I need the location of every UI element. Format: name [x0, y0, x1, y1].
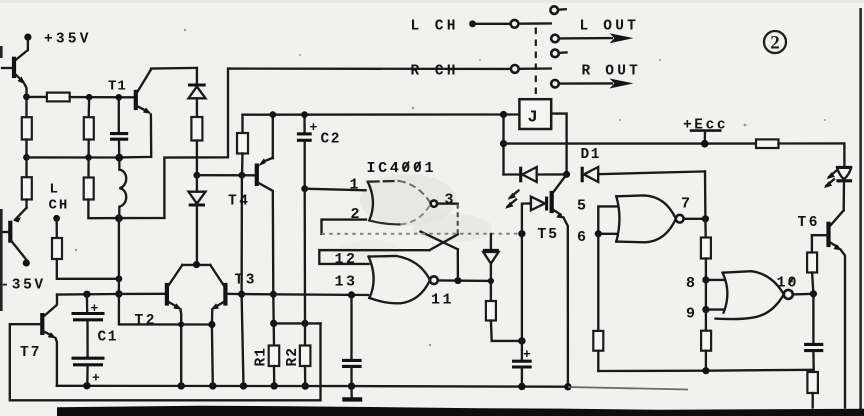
node pin11 cross riser — [454, 277, 461, 284]
node x=241.6 y=175 — [239, 172, 246, 179]
svg-text:R1: R1 — [254, 347, 270, 366]
node R1 top — [270, 320, 277, 327]
wire D1 net corner down to gate out — [704, 171, 707, 218]
svg-text:12: 12 — [335, 251, 358, 268]
node pin 7 — [702, 215, 709, 222]
node gnd T3emitter — [209, 382, 216, 389]
wire top rail y=97 — [27, 96, 47, 98]
wire mid rail y=157 — [27, 156, 120, 158]
wire feedback dotted line to T5 — [322, 233, 522, 235]
node pin 8 — [702, 276, 709, 283]
svg-text:T7: T7 — [20, 345, 41, 361]
scan smudge background artifacts — [0, 0, 864, 260]
arrow R OUT — [559, 64, 641, 89]
switch contact mid NC — [551, 50, 566, 58]
svg-text:+: + — [92, 371, 100, 386]
switch contact top NC — [550, 6, 565, 14]
gate U1A (pins 1,2 -> 3) faded — [368, 181, 437, 225]
wire pin 2 hook — [322, 220, 367, 234]
node gnd x=522 — [518, 383, 525, 390]
node pin13 cap tap — [348, 291, 355, 298]
resistor R2 — [285, 323, 310, 386]
gate U1B (pins 12,13 -> 11) — [369, 256, 438, 303]
svg-text:T2: T2 — [135, 313, 157, 329]
diode lower (x=197 chain, pointing down) — [189, 175, 206, 264]
svg-text:T1: T1 — [108, 79, 127, 95]
node gnd x=568 — [564, 383, 571, 390]
wire x=119 vertical to base rail — [118, 218, 120, 294]
node A (top rail left) — [23, 93, 30, 100]
svg-text:R2: R2 — [285, 347, 301, 366]
svg-text:2: 2 — [770, 33, 780, 54]
wire cross X (pin3 to pin12 / pin11 to feedback) — [421, 232, 458, 251]
left page-edge mark upper — [0, 46, 3, 58]
capacitor x=522 polarized — [512, 341, 532, 387]
wire R-CH input feed (corner chain) — [164, 69, 510, 218]
switch contact L pole — [511, 20, 519, 28]
resistor x=598 — [593, 234, 603, 371]
wire pin 11 output — [438, 279, 491, 282]
wire pin 1 — [305, 189, 366, 191]
wire C2 line down to R2 — [304, 189, 307, 324]
gate U1D (pins 8,9 -> 10) — [716, 271, 793, 319]
resistor T6 base — [807, 235, 817, 294]
label L CH input — [49, 182, 70, 214]
wire resistor to node 175 — [196, 141, 198, 176]
svg-text:T5: T5 — [538, 227, 559, 243]
node x=88.5 y=157 — [85, 154, 92, 161]
resistor R1 — [254, 323, 280, 386]
node diode mid bottom — [488, 278, 494, 284]
node R2 top — [301, 320, 308, 327]
svg-text:R CH: R CH — [411, 64, 459, 80]
node gnd T2emitter — [178, 382, 185, 389]
resistor chain x=26.5 upper — [22, 99, 32, 157]
resistor chain x=88.5 upper — [84, 99, 94, 158]
node gnd cap352 — [348, 382, 355, 389]
label +Ecc — [683, 118, 728, 142]
wire x=241.6 vertical (T3 base / flipflop) — [242, 175, 244, 386]
resistor horizontal Ecc-LED — [756, 139, 779, 148]
ground stub below rail x=352 — [342, 386, 362, 399]
node pin 9 — [702, 306, 709, 313]
svg-text:C2: C2 — [321, 132, 341, 148]
node x=241.6 y=294 — [238, 291, 245, 298]
capacitor C2 — [297, 115, 341, 189]
svg-text:D1: D1 — [581, 147, 602, 163]
node rail x=119 — [116, 94, 123, 101]
wire T1 collector top run — [151, 67, 197, 70]
left page-edge line — [0, 209, 3, 311]
resistor x=706 lower — [701, 310, 711, 371]
transistor T4 — [228, 115, 273, 295]
transistor T5 with photodiode — [505, 174, 568, 386]
diode flyback (cathode left) — [504, 167, 567, 183]
svg-text:L OUT: L OUT — [580, 19, 640, 35]
switch contact L OUT — [551, 35, 559, 43]
transistor T2 — [135, 265, 183, 386]
svg-text:6: 6 — [577, 229, 586, 246]
inductor L (two right-bulging arcs) — [119, 158, 126, 219]
svg-text:-35V: -35V — [1, 278, 46, 294]
mark circled 2 — [764, 31, 786, 54]
diode mid (x=491, cathode up) — [483, 234, 499, 281]
svg-text:7: 7 — [681, 196, 690, 213]
node gnd x=243 — [240, 382, 247, 389]
node L CH feed dot — [469, 20, 476, 27]
wire R1/R2 top tie — [274, 322, 321, 324]
wire pin 9 stub — [706, 308, 725, 310]
wire T2 base rail — [57, 293, 166, 296]
wire pin 3 output corner — [437, 202, 458, 204]
node gnd R2 — [302, 382, 309, 389]
wire pin 8 stub — [706, 279, 724, 281]
svg-text:T6: T6 — [798, 215, 820, 231]
svg-text:IC4001: IC4001 — [367, 160, 437, 177]
node x=197 y=175 — [194, 172, 201, 179]
wire T4 collector to R1 top — [272, 294, 275, 323]
node x=273 y=294 — [270, 291, 277, 298]
node x=522 y=341 — [518, 337, 525, 344]
resistor chain x=88.5 lower — [84, 157, 165, 218]
resistor x=242.5 (from +rail) — [237, 115, 248, 176]
resistor horizontal top-left — [47, 93, 70, 102]
right page-edge line — [859, 8, 862, 416]
svg-text:13: 13 — [335, 274, 358, 291]
svg-text:L CH: L CH — [411, 19, 459, 35]
svg-text:L: L — [50, 182, 60, 198]
node x=26.5 y=157 — [23, 154, 30, 161]
node diode row center — [563, 171, 570, 178]
node x=119 y=279 — [116, 275, 123, 282]
node -35V terminal — [1, 259, 46, 293]
wire riser x=458 — [457, 249, 459, 280]
node collector tie center — [193, 261, 200, 268]
resistor x=706 upper — [701, 219, 711, 280]
node T4 emitter at +rail — [269, 111, 276, 118]
node gnd R1 — [271, 382, 278, 389]
svg-text:CH: CH — [49, 198, 70, 214]
wire pin 7 output — [684, 218, 706, 220]
wire relay actuator dashed — [535, 28, 537, 98]
wire T2/T3 collector tie — [182, 264, 210, 266]
wire rail resistor to T1 base — [70, 96, 136, 99]
capacitor x=352 — [342, 295, 362, 386]
resistor x=813 bottom — [807, 372, 818, 408]
transistor T6 — [798, 210, 846, 407]
node pin 10 out — [810, 290, 817, 297]
wire pins 5,6 tie — [598, 206, 616, 233]
svg-text:+35V: +35V — [44, 32, 92, 48]
wire T1 emitter riser — [119, 115, 151, 158]
node +Ecc tap — [701, 140, 709, 148]
node L CH terminal — [53, 215, 60, 222]
wire +relay rail y=114.6 — [243, 113, 520, 116]
svg-text:R OUT: R OUT — [582, 64, 642, 80]
svg-text:+: + — [91, 301, 99, 316]
diode upper (x=197 chain, pointing up) — [188, 68, 206, 117]
node T2 emitter bootstrap crossing — [178, 321, 184, 327]
scan speckles — [75, 29, 826, 346]
capacitor C1 (two polarized sections) — [72, 294, 118, 385]
wire ground rail faded continuation — [568, 387, 688, 390]
label pin 10 — [777, 275, 799, 292]
wire +35V dot to Q A collector — [15, 40, 28, 61]
svg-text:8: 8 — [686, 275, 695, 292]
LED (photo-emitter, cathode down) — [824, 167, 852, 210]
label IC4001 — [367, 160, 437, 177]
svg-text:J: J — [528, 109, 538, 128]
switch contact R OUT — [551, 80, 559, 88]
wire pin3 vertical (faded dashes) — [457, 204, 459, 235]
node pin 6 — [595, 230, 602, 237]
node gnd2 x=706 — [702, 367, 709, 374]
svg-text:T3: T3 — [235, 273, 257, 289]
svg-text:T4: T4 — [228, 194, 250, 210]
svg-text:11: 11 — [431, 292, 454, 309]
wire right ground rail y=371 — [598, 370, 813, 371]
wire pin 13 rail — [242, 293, 368, 296]
svg-text:9: 9 — [686, 306, 695, 323]
node pin1 tap — [301, 185, 308, 192]
transistor QB (PNP to -35V) — [2, 208, 27, 260]
resistor x=197 — [191, 117, 202, 141]
transistor QA (upper-left NPN) — [2, 57, 27, 93]
resistor L CH input — [52, 220, 119, 279]
resistor chain x=26.5 lower — [22, 157, 32, 207]
node inductor bottom junction — [115, 214, 123, 222]
transistor T1 — [108, 70, 152, 115]
node Ecc rail left — [500, 140, 507, 147]
switch contact R pole — [511, 65, 519, 73]
wire T3 base to x=241.6 — [226, 293, 241, 296]
svg-text:C1: C1 — [98, 330, 118, 346]
node C2 top — [301, 111, 308, 118]
node x=119 y=157 — [115, 154, 123, 162]
wire +Ecc rail — [504, 142, 757, 144]
node +35V terminal — [24, 32, 91, 48]
wire J right lead — [551, 114, 566, 175]
transistor T7 — [11, 295, 58, 386]
wire L pole stub — [519, 22, 551, 25]
wire pin 10 output — [793, 293, 814, 296]
diode D1 (cathode left) — [581, 147, 706, 182]
svg-text:3: 3 — [445, 192, 454, 209]
svg-text:5: 5 — [577, 198, 586, 215]
node feedback at T5 — [518, 230, 525, 237]
gate U1C (pins 5,6 -> 7) — [616, 195, 683, 242]
wire x=119 bootstrap down + run to T3 emitter — [119, 294, 212, 325]
svg-text:+: + — [523, 347, 531, 362]
node relay rail junction — [500, 111, 507, 118]
wire ground rail bottom — [57, 385, 568, 388]
svg-text:+: + — [310, 120, 318, 135]
capacitor x=119 (plates) — [110, 99, 128, 157]
wire pin 12 hook — [319, 250, 429, 264]
wire x=522 drop — [521, 234, 523, 341]
node rail x=89 — [86, 94, 93, 101]
transistor T3 — [210, 265, 257, 386]
bottom scan bar — [57, 406, 864, 416]
resistor x=491 — [486, 281, 522, 341]
wire T4 base run y=175 — [197, 174, 256, 176]
node x=119 y=294 — [115, 290, 122, 297]
node C1 top — [83, 291, 90, 298]
relay J box — [519, 99, 551, 129]
wire resistor to LED corner — [779, 143, 845, 166]
node T3 emitter bootstrap junction — [208, 321, 215, 328]
wire x=503 drop — [502, 115, 504, 175]
arrow L OUT — [559, 19, 639, 44]
wire R pole stub — [519, 67, 551, 70]
wire feedback loop to T7 base — [10, 323, 321, 400]
capacitor x=813 — [804, 294, 823, 370]
node gnd C1 — [83, 382, 90, 389]
svg-text:10: 10 — [777, 275, 799, 292]
wire L CH to switch — [473, 23, 511, 25]
wire pins 8-9 tie — [705, 280, 707, 310]
